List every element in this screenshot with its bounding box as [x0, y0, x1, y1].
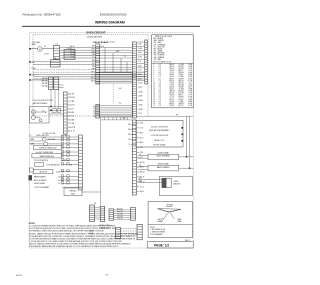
svg-text:20: 20: [153, 103, 155, 105]
legend table rows: [153, 64, 193, 107]
hatched block: [29, 175, 33, 180]
oven lamp 1: [42, 137, 46, 141]
svg-text:10-TN: 10-TN: [138, 83, 142, 85]
svg-text:BK-10: BK-10: [70, 46, 75, 48]
svg-text:WIRING DIAGRAM: WIRING DIAGRAM: [95, 20, 125, 24]
svg-text:5-YL: 5-YL: [138, 61, 141, 63]
connector strip B: [79, 135, 83, 190]
svg-text:RD 3: RD 3: [92, 51, 96, 53]
svg-text:GY-28: GY-28: [170, 101, 175, 103]
svg-text:OR-25: OR-25: [170, 95, 175, 97]
fan box notes: [150, 227, 166, 236]
small component TB: [51, 60, 61, 67]
svg-text:LEGEND: LEGEND: [166, 204, 174, 206]
svg-text:NOTE:: NOTE:: [150, 227, 155, 229]
svg-text:VT-BR: VT-BR: [179, 76, 185, 78]
svg-text:RELAY BOARD: RELAY BOARD: [93, 41, 109, 44]
connector J6 (left of fan box): [137, 224, 142, 240]
svg-text:YL-6 TN: YL-6 TN: [117, 218, 122, 220]
svg-text:WIRE: WIRE: [178, 221, 182, 223]
svg-text:OR-2 WH: OR-2 WH: [68, 97, 75, 99]
svg-text:BK-10: BK-10: [170, 64, 175, 66]
svg-text:4-8: 4-8: [119, 88, 122, 90]
diagram outer frame: [30, 33, 194, 248]
lower comp box: [33, 169, 53, 174]
wires terminal to strip A: [59, 84, 64, 86]
svg-text:4-2: 4-2: [119, 103, 122, 105]
terminal labels: [42, 77, 49, 87]
svg-text:2-WH: 2-WH: [138, 48, 142, 50]
svg-text:K1-K4: K1-K4: [110, 42, 115, 44]
svg-text:3: 3: [153, 68, 154, 70]
svg-text:1-4: 1-4: [159, 95, 161, 97]
svg-text:GN-10 TN: GN-10 TN: [68, 127, 75, 129]
probe inner component: [162, 178, 171, 187]
svg-text:DOOR LOCK MOTOR 120V: DOOR LOCK MOTOR 120V: [33, 100, 54, 102]
svg-text:5: 5: [153, 72, 154, 74]
svg-text:PR 9: PR 9: [92, 69, 96, 71]
svg-text:1-1: 1-1: [159, 101, 161, 103]
notes block: [29, 223, 139, 248]
svg-text:TN 10: TN 10: [91, 72, 95, 74]
svg-text:VT 9: VT 9: [140, 157, 143, 159]
svg-text:GY 7: GY 7: [92, 63, 96, 65]
broil leads: [138, 155, 148, 157]
vertical feed wires right of door lock: [186, 116, 188, 157]
svg-text:4-2: 4-2: [159, 103, 161, 105]
relay board body: [100, 72, 133, 117]
svg-text:13: 13: [153, 89, 155, 91]
board top wire rows: [96, 73, 133, 81]
svg-text:RD-4 BR: RD-4 BR: [117, 213, 123, 215]
svg-text:BU-27: BU-27: [170, 99, 175, 101]
svg-text:OR 4: OR 4: [92, 54, 96, 56]
svg-text:BK 1: BK 1: [92, 46, 95, 48]
svg-text:7-VT: 7-VT: [189, 95, 193, 97]
svg-text:6-BU: 6-BU: [138, 65, 141, 67]
svg-text:11-VT: 11-VT: [138, 87, 142, 89]
strip stub labels upper: [138, 44, 143, 116]
svg-text:BAKE ELEMENT: BAKE ELEMENT: [157, 166, 170, 169]
terminal block stack (dual): [48, 77, 53, 90]
svg-text:BU 16: BU 16: [140, 191, 144, 193]
feed wire from frame: [30, 79, 48, 81]
svg-text:WH: WH: [139, 181, 142, 183]
svg-text:15: 15: [153, 93, 155, 95]
svg-text:2. SEE TECH SHEET: 2. SEE TECH SHEET: [150, 232, 165, 234]
svg-text:GN 12: GN 12: [91, 77, 96, 79]
svg-text:BK 13: BK 13: [91, 80, 95, 82]
door lock box: [136, 120, 183, 147]
text block left: [33, 100, 54, 105]
svg-text:BK 11: BK 11: [140, 167, 144, 169]
svg-text:BR 6: BR 6: [140, 142, 144, 144]
svg-text:OR-5 PR: OR-5 PR: [117, 216, 123, 218]
svg-text:EW30EW55GS5/GW55: EW30EW55GS5/GW55: [100, 13, 127, 17]
convection fan box: [33, 146, 62, 150]
svg-text:YL 5: YL 5: [92, 57, 95, 59]
svg-text:PR-18: PR-18: [170, 80, 175, 82]
svg-text:1-1: 1-1: [159, 89, 161, 91]
svg-text:4-2: 4-2: [159, 78, 161, 80]
wire bend to strip: [101, 119, 133, 121]
svg-text:GN-21: GN-21: [170, 86, 175, 88]
svg-text:BR-YL: BR-YL: [179, 70, 184, 72]
small relay boxes: [52, 108, 56, 112]
svg-text:7-3: 7-3: [159, 80, 161, 82]
svg-text:PR-30: PR-30: [170, 105, 175, 107]
svg-text:14: 14: [153, 91, 155, 93]
svg-text:YL-3 RD: YL-3 RD: [68, 101, 75, 103]
svg-text:YL-26: YL-26: [170, 97, 174, 99]
svg-text:17-YL: 17-YL: [138, 113, 142, 115]
svg-text:GN 10: GN 10: [140, 162, 145, 164]
svg-text:WH: WH: [128, 129, 131, 131]
svg-text:7-GY: 7-GY: [138, 70, 142, 72]
svg-text:Publication No. 5995447180: Publication No. 5995447180: [23, 12, 62, 16]
junction dots: [29, 61, 30, 62]
svg-text:P1: P1: [44, 46, 46, 48]
svg-text:YL 15: YL 15: [140, 186, 144, 188]
svg-text:YL: YL: [129, 144, 131, 146]
svg-text:BU-RD: BU-RD: [179, 66, 185, 68]
svg-text:BU 6: BU 6: [92, 60, 96, 62]
svg-text:21: 21: [153, 105, 155, 107]
svg-text:RD-24: RD-24: [170, 93, 175, 95]
wires door lock to strip A: [49, 107, 64, 115]
svg-text:17: 17: [153, 97, 155, 99]
wire fan to connector: [30, 48, 38, 50]
svg-text:12: 12: [153, 86, 155, 88]
wire P9: [136, 115, 193, 117]
svg-text:WH 12: WH 12: [140, 172, 145, 174]
svg-text:BK-TN: BK-TN: [179, 105, 185, 107]
vertical wires above board: [105, 48, 127, 73]
strip A labels: [68, 94, 75, 133]
svg-text:BU-RD: BU-RD: [179, 91, 185, 93]
svg-text:7-3: 7-3: [159, 93, 161, 95]
svg-text:1-4: 1-4: [159, 82, 161, 84]
probe leads: [138, 179, 162, 181]
svg-text:LOCK SW UNLOCK SW: LOCK SW UNLOCK SW: [151, 135, 169, 137]
small left box: [29, 168, 33, 172]
header rule: [22, 25, 200, 27]
svg-text:10: 10: [153, 82, 155, 84]
main connector strip P1 (right of board): [132, 42, 136, 118]
connector P2: [54, 46, 60, 60]
svg-text:6: 6: [153, 74, 154, 76]
svg-text:9: 9: [153, 80, 154, 82]
svg-text:GY-5 YL: GY-5 YL: [68, 108, 74, 110]
short drops below board: [105, 117, 128, 120]
probe outer box: [159, 176, 192, 195]
svg-text:VT 11: VT 11: [91, 75, 95, 77]
dashed box OVEN CIRCUIT: [33, 35, 148, 116]
board left pin connector column lower: [96, 105, 100, 119]
connector J4: [130, 208, 135, 221]
svg-text:6-3: 6-3: [93, 111, 95, 113]
svg-text:BR-29: BR-29: [170, 103, 175, 105]
svg-text:7-6: 7-6: [159, 74, 161, 76]
center vertical wire: [100, 117, 102, 206]
svg-text:4-5: 4-5: [159, 72, 161, 74]
door lock motor assembly: [30, 107, 50, 124]
svg-text:BR-6 BU: BR-6 BU: [68, 112, 74, 114]
connector J3: [109, 209, 114, 220]
svg-text:120/240 VAC 60HZ: 120/240 VAC 60HZ: [87, 36, 103, 39]
svg-text:BU: BU: [70, 165, 72, 167]
svg-text:7-6: 7-6: [159, 86, 161, 88]
wires J5 to J6: [121, 229, 138, 236]
svg-text:PR 7: PR 7: [140, 147, 144, 149]
svg-text:BROIL ELEMENT: BROIL ELEMENT: [34, 180, 46, 182]
svg-text:5-2: 5-2: [93, 108, 95, 110]
pin labels left of board: [91, 46, 96, 83]
legend box: [152, 35, 194, 108]
svg-text:BROIL ELEMENT: BROIL ELEMENT: [157, 156, 170, 158]
convection fan box: [148, 202, 192, 238]
svg-text:WH-11: WH-11: [70, 49, 75, 51]
svg-text:GN-PR: GN-PR: [179, 103, 185, 105]
small box row: [35, 163, 44, 166]
svg-text:TN 8: TN 8: [140, 152, 143, 154]
svg-text:THERMO-: THERMO-: [69, 190, 77, 192]
svg-text:7-6: 7-6: [159, 99, 161, 101]
svg-text:BK-2 BU: BK-2 BU: [117, 209, 123, 211]
svg-text:2: 2: [153, 66, 154, 68]
svg-text:11: 11: [153, 84, 155, 86]
svg-text:P4: P4: [94, 203, 96, 205]
svg-text:4-VT: 4-VT: [189, 70, 193, 72]
svg-text:P7 DOOR SWITCH: P7 DOOR SWITCH: [34, 160, 49, 162]
thermostat box: [64, 188, 82, 196]
svg-text:51-2 BK 54-1 WH: 51-2 BK 54-1 WH: [43, 133, 56, 135]
junction dots door lock: [50, 106, 51, 107]
svg-text:RD-12: RD-12: [170, 68, 175, 70]
oven lamp 2: [44, 142, 48, 146]
svg-text:1-6: 1-6: [58, 183, 60, 185]
horizontal wire bundle through board: [96, 48, 133, 84]
title block: [147, 242, 193, 248]
svg-text:1: 1: [153, 64, 154, 66]
svg-text:7-4: 7-4: [93, 113, 95, 115]
svg-text:TN-19: TN-19: [170, 82, 175, 84]
svg-text:54-10: 54-10: [100, 46, 104, 48]
svg-text:AND SWITCH ASSEMBLY: AND SWITCH ASSEMBLY: [149, 129, 170, 132]
svg-text:WH-23: WH-23: [170, 91, 175, 93]
svg-text:PR-BU: PR-BU: [179, 72, 185, 74]
svg-text:EN/15: EN/15: [16, 275, 23, 277]
connector strip lower section: [132, 120, 136, 195]
svg-text:OR-13: OR-13: [170, 70, 175, 72]
svg-text:7: 7: [153, 76, 154, 78]
svg-text:YL 3: YL 3: [140, 128, 143, 130]
svg-text:BR 8: BR 8: [92, 66, 96, 68]
svg-text:4-2: 4-2: [159, 91, 161, 93]
svg-text:BU-4 OR: BU-4 OR: [68, 105, 75, 107]
svg-text:OR 2: OR 2: [140, 123, 144, 125]
bake leads: [138, 166, 148, 168]
svg-text:1-8: 1-8: [139, 154, 141, 156]
svg-text:1-YL: 1-YL: [189, 82, 193, 84]
svg-text:BK-11 VT: BK-11 VT: [68, 131, 74, 133]
bake element box: [148, 165, 179, 171]
lower pin labels: [93, 106, 95, 118]
svg-text:RD-1 BK: RD-1 BK: [68, 94, 74, 96]
svg-text:DOOR LOCK MOTOR: DOOR LOCK MOTOR: [151, 126, 169, 128]
svg-text:16: 16: [153, 95, 155, 97]
svg-text:8-5: 8-5: [93, 115, 95, 117]
svg-text:BK-22: BK-22: [170, 89, 175, 91]
svg-text:TN-8 BR: TN-8 BR: [68, 119, 75, 121]
dashed sense line inside board: [112, 84, 114, 104]
svg-text:12-GN: 12-GN: [138, 91, 142, 93]
svg-text:GY 5: GY 5: [140, 137, 144, 139]
svg-text:VT-20: VT-20: [170, 84, 174, 86]
svg-text:4-2: 4-2: [159, 66, 161, 68]
svg-text:P2: P2: [56, 44, 58, 46]
svg-text:SENSOR: SENSOR: [174, 184, 182, 186]
svg-text:WH-VT: WH-VT: [179, 82, 184, 84]
svg-text:BU 4: BU 4: [140, 132, 144, 134]
connector J5: [115, 227, 120, 238]
meat probe box: [32, 153, 62, 158]
door lock left stubs: [128, 124, 136, 146]
svg-text:OVEN CIRCUIT: OVEN CIRCUIT: [86, 30, 106, 34]
inline connector pairs: [61, 135, 69, 184]
component S1: [64, 50, 75, 60]
svg-text:N WH: N WH: [31, 62, 35, 64]
svg-text:WH-11: WH-11: [170, 66, 175, 68]
svg-text:7-3: 7-3: [159, 105, 161, 107]
svg-text:BR-YL: BR-YL: [179, 95, 184, 97]
fan symbol: [158, 207, 182, 220]
door lock right junction dots: [182, 127, 184, 142]
svg-text:YL-14: YL-14: [170, 72, 174, 74]
cooling fan motor M: [38, 47, 43, 52]
svg-text:VT-9 PR: VT-9 PR: [68, 123, 75, 125]
svg-text:L2 RD TO ELEMENT: L2 RD TO ELEMENT: [34, 187, 49, 189]
svg-text:4: 4: [153, 70, 154, 72]
legend color code lines: [154, 36, 173, 61]
svg-text:TN - TAN: TN - TAN: [154, 58, 162, 61]
svg-text:PR-7 GY: PR-7 GY: [68, 116, 74, 118]
connector J2: [100, 206, 105, 221]
wire from thermostat: [82, 191, 101, 193]
svg-text:REV. C: REV. C: [185, 240, 191, 242]
svg-text:2-1: 2-1: [124, 56, 126, 58]
svg-text:2-4: 2-4: [139, 165, 141, 167]
svg-text:14-WH: 14-WH: [138, 100, 143, 102]
svg-text:BU-15: BU-15: [170, 74, 175, 76]
svg-text:4-5: 4-5: [159, 97, 161, 99]
svg-text:18: 18: [153, 99, 155, 101]
svg-text:WH 2: WH 2: [91, 48, 95, 50]
svg-text:P9: P9: [176, 114, 178, 116]
drops to door lock cluster: [50, 90, 52, 95]
svg-text:GN-PR: GN-PR: [179, 78, 185, 80]
wires connector to board: [60, 47, 96, 49]
svg-text:BK: BK: [128, 124, 130, 126]
svg-text:YL-WH: YL-WH: [179, 64, 185, 66]
svg-text:BK-TN: BK-TN: [179, 80, 185, 82]
svg-text:GY-OR: GY-OR: [179, 68, 185, 70]
svg-text:GY-OR: GY-OR: [179, 93, 185, 95]
connector strip A: [64, 92, 68, 134]
bus wires L1 L2 N: [33, 62, 145, 79]
svg-text:4-5: 4-5: [159, 84, 161, 86]
board left pin connector column upper: [96, 44, 100, 84]
wires J3 to J4 with labels: [114, 210, 131, 220]
board bottom wire rows: [96, 106, 133, 116]
svg-text:NOTES:: NOTES:: [29, 223, 36, 225]
junction on left frame: [29, 48, 31, 50]
edge connector pins: [145, 40, 147, 84]
svg-text:RD-GN: RD-GN: [179, 84, 185, 86]
rungs J1-J2: [95, 207, 101, 219]
svg-text:PAGE: 1/2: PAGE: 1/2: [154, 244, 169, 248]
svg-text:BR-17: BR-17: [170, 78, 175, 80]
svg-text:1-4: 1-4: [159, 70, 161, 72]
broil element box: [148, 154, 179, 159]
svg-text:1-1: 1-1: [159, 76, 161, 78]
svg-text:TB: TB: [54, 58, 56, 60]
svg-text:GY-16: GY-16: [170, 76, 175, 78]
svg-text:YL-WH: YL-WH: [179, 89, 185, 91]
svg-text:RD-12: RD-12: [70, 51, 75, 53]
svg-text:8: 8: [153, 78, 154, 80]
svg-text:PR-BU: PR-BU: [179, 97, 185, 99]
svg-text:VT-BR: VT-BR: [179, 101, 185, 103]
connector J1: [90, 205, 95, 222]
svg-text:CIRCUIT: CIRCUIT: [158, 219, 164, 221]
vertical link wires: [50, 94, 52, 107]
svg-text:13-BK: 13-BK: [138, 96, 142, 98]
svg-text:19: 19: [153, 101, 155, 103]
svg-text:WH-3 GY: WH-3 GY: [117, 211, 123, 213]
svg-text:4-1: 4-1: [93, 106, 95, 108]
svg-text:7-3: 7-3: [159, 68, 161, 70]
svg-text:1-1: 1-1: [159, 64, 161, 66]
svg-text:54-8: 54-8: [116, 51, 119, 53]
svg-text:1-BK: 1-BK: [138, 44, 141, 46]
